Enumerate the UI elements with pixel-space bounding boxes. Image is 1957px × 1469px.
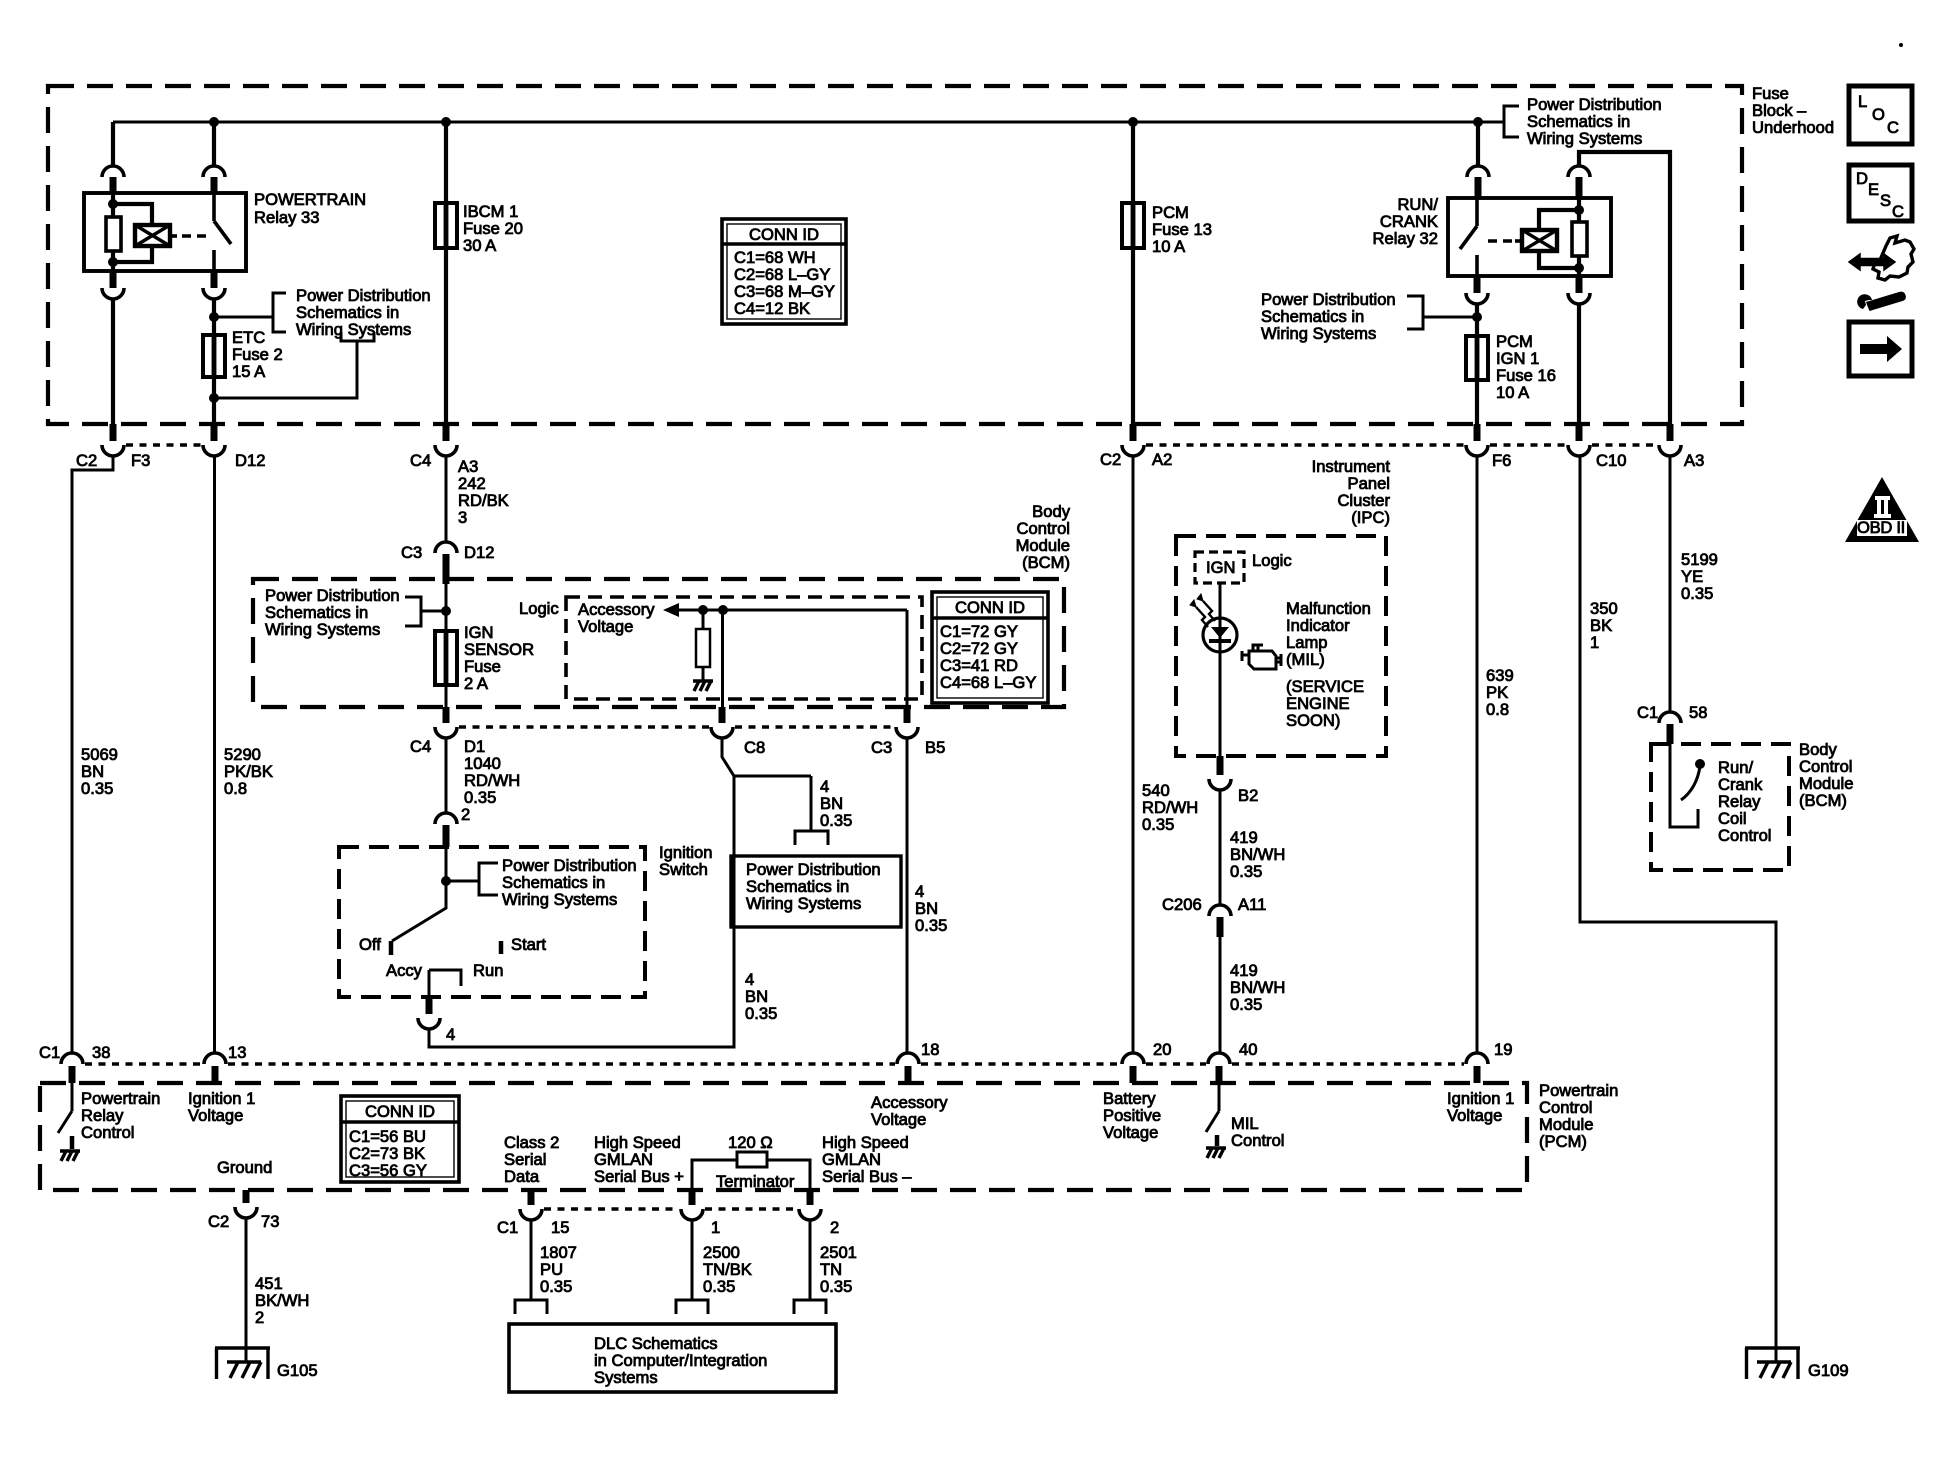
svg-text:C2: C2 [208, 1212, 229, 1231]
pin stub into run/crank BCM box [1667, 724, 1674, 744]
label Accessory Voltage (BCM logic) [578, 600, 655, 636]
label wire 350 BK 1 [1590, 599, 1618, 652]
dashed mechanical link relay 32 [1488, 239, 1516, 243]
label wire 5069 BN 0.35 [81, 745, 118, 798]
label Power Distribution Schematics in Wiring Systems (ignition switch) [502, 856, 637, 909]
wire: resistor branch [702, 610, 705, 681]
pin stub C206 [1217, 917, 1224, 937]
node: junction to PDS bracket on ETC leg [209, 312, 219, 322]
label wire 2500 TN/BK 0.35 [703, 1243, 752, 1296]
connector arc 4 [418, 1018, 440, 1029]
wire from under-bracket to ETC leg [214, 341, 357, 398]
label wire 5290 PK/BK 0.8 [224, 745, 273, 798]
dotted connector line segments (PCM top row) [85, 1062, 202, 1066]
label MIL Control [1231, 1114, 1285, 1150]
label Ignition 1 Voltage (right) [1447, 1089, 1514, 1125]
svg-text:38: 38 [92, 1043, 110, 1062]
wire: accessory voltage line across logic box [678, 609, 907, 612]
svg-text:13: 13 [228, 1043, 246, 1062]
svg-text:0.35: 0.35 [1142, 815, 1174, 834]
label wire 5199 YE 0.35 [1681, 550, 1718, 603]
svg-text:Start: Start [511, 935, 546, 954]
svg-text:POWERTRAIN: POWERTRAIN [254, 190, 366, 209]
forward arrow icon box [1849, 322, 1912, 376]
connector arc D12 [203, 445, 225, 456]
wire 419 BN/WH 0.35 upper segment [1219, 790, 1222, 905]
resistor inside relay 33 [106, 217, 121, 251]
svg-text:A2: A2 [1152, 450, 1172, 469]
wire 242 RD/BK from C4/A3 to C3/D12 [445, 456, 448, 542]
pin labels C2 / 73 [208, 1212, 279, 1231]
svg-text:0.8: 0.8 [224, 779, 247, 798]
svg-text:2: 2 [830, 1218, 839, 1237]
pin stub C4/D1 [443, 707, 450, 723]
svg-text:C4: C4 [410, 737, 431, 756]
label wire 639 PK 0.8 [1486, 666, 1514, 719]
connector arc C1/58 [1659, 712, 1681, 723]
wire: relay 32 switched output down to F6 [1475, 304, 1479, 424]
connector arc C2/73 [235, 1207, 257, 1218]
reference bracket BCM ign sensor area [405, 597, 421, 626]
node: relay 33 coil loop bottom [108, 257, 118, 267]
Accy-Run bridge contact [429, 970, 461, 986]
connector arc 40 [1208, 1053, 1230, 1064]
fuse F2 ETC Fuse 2 15 A [203, 335, 225, 377]
svg-text:40: 40 [1239, 1040, 1257, 1059]
switch pivot dot [1695, 759, 1705, 769]
BCM dashed enclosure [253, 579, 1064, 707]
reference bracket ignition switch [479, 863, 498, 895]
svg-text:Serial Bus –: Serial Bus – [822, 1167, 912, 1186]
svg-text:C1: C1 [39, 1043, 60, 1062]
svg-text:C4: C4 [410, 451, 431, 470]
svg-text:E: E [1868, 180, 1879, 199]
svg-text:Voltage: Voltage [1447, 1106, 1502, 1125]
svg-text:IGN: IGN [1206, 558, 1236, 577]
svg-text:Accy: Accy [386, 961, 423, 980]
fuse F20 IBCM 1 Fuse 20 30 A [435, 203, 457, 248]
label wire D1 1040 RD/WH 0.35 [464, 754, 520, 807]
svg-text:Systems: Systems [594, 1368, 658, 1387]
wire: terminator left leg [692, 1160, 737, 1190]
label Ignition Switch [659, 843, 713, 879]
svg-text:Wiring Systems: Wiring Systems [746, 894, 861, 913]
svg-text:D: D [1856, 169, 1868, 188]
pin stub relay 33 right leg [211, 177, 218, 193]
resistor in BCM logic [696, 629, 710, 667]
svg-text:F6: F6 [1492, 451, 1511, 470]
wire inside ignition switch [445, 847, 448, 881]
wire: PCM fuse 13 leg from bus [1131, 122, 1135, 424]
connector arc C1/38 [61, 1053, 83, 1064]
connector arc 2 [799, 1209, 821, 1220]
svg-text:CONN ID: CONN ID [749, 225, 819, 244]
bracket above DLC box (C1/15) [515, 1300, 547, 1314]
svg-text:0.35: 0.35 [745, 1004, 777, 1023]
node: junction to BCM reference bracket [441, 606, 451, 616]
svg-text:Relay 32: Relay 32 [1373, 229, 1439, 248]
svg-text:C3: C3 [401, 543, 422, 562]
wire: relay 33 coil loop [113, 204, 152, 262]
ground G105 [215, 1348, 270, 1379]
ignition switch dashed enclosure [339, 847, 645, 997]
label IGN SENSOR Fuse 2 A [464, 623, 534, 693]
connector arc relay 33 right leg [203, 166, 225, 177]
svg-text:Wiring Systems: Wiring Systems [265, 620, 380, 639]
coil (crossed box) of relay 33 [135, 225, 177, 246]
driver contact [70, 1136, 75, 1149]
BCM logic dashed box [566, 597, 922, 699]
pin stub into ignition switch [443, 825, 450, 847]
svg-text:Logic: Logic [519, 599, 559, 618]
LOC icon box [1849, 86, 1912, 144]
label wire 419 BN/WH 0.35 (lower) [1230, 961, 1285, 1014]
MIL lamp LED circle [1203, 618, 1237, 652]
wire: relay 33 coil leg from bus [212, 122, 216, 166]
svg-text:C4=12 BK: C4=12 BK [734, 299, 810, 318]
svg-text:B2: B2 [1238, 786, 1258, 805]
pin labels DLC row [497, 1218, 839, 1237]
wire branch to boxed reference (accessory feed) [734, 776, 811, 831]
svg-text:CONN ID: CONN ID [365, 1102, 435, 1121]
connector arc C1/15 [520, 1209, 542, 1220]
connector arc 18 [897, 1053, 919, 1064]
IPC dashed enclosure [1176, 536, 1386, 756]
svg-text:A11: A11 [1238, 895, 1266, 914]
wire 639 PK 0.8 from F6 down to PCM 19 [1476, 456, 1479, 1053]
svg-text:Voltage: Voltage [871, 1110, 926, 1129]
connector arc 2 (ignition switch feed) [435, 813, 457, 824]
label PCM Fuse 13 10 A [1152, 203, 1212, 256]
wire 451 BK/WH 2 to G105 [245, 1218, 248, 1362]
powertrain relay control driver switch [58, 1083, 72, 1133]
wire: relay 32 right leg down to C10 [1577, 304, 1581, 424]
svg-text:C8: C8 [744, 738, 765, 757]
pin labels C1 / 58 [1637, 703, 1707, 722]
PCM dashed enclosure [40, 1083, 1527, 1190]
CONN ID table (BCM) [932, 592, 1048, 703]
label Powertrain Relay Control [81, 1089, 160, 1142]
svg-text:Wiring Systems: Wiring Systems [296, 320, 411, 339]
connector arc relay 32 right leg top [1568, 166, 1590, 177]
connector row at fuse block bottom : pin stubs [110, 424, 117, 441]
svg-text:G109: G109 [1808, 1361, 1849, 1380]
reference bracket to Power Distribution Schematics (top right) [1504, 106, 1519, 137]
wire 540 RD/WH 0.35 from C2/A2 down to PCM 20 [1132, 456, 1135, 1053]
connector arc 20 [1122, 1053, 1144, 1064]
connector arc relay 33 left leg [102, 166, 124, 177]
run/crank relay coil control dashed enclosure [1651, 744, 1789, 870]
svg-text:0.35: 0.35 [540, 1277, 572, 1296]
svg-text:30 A: 30 A [463, 236, 497, 255]
MIL control driver switch [1206, 1083, 1219, 1132]
connector arc relay 32 left leg top [1467, 166, 1489, 177]
svg-text:O: O [1872, 105, 1885, 124]
label (SERVICE ENGINE SOON) [1286, 677, 1364, 730]
label Ignition 1 Voltage (left) [188, 1089, 255, 1125]
svg-text:Run: Run [473, 961, 503, 980]
wire: accessory output leg inside switch [428, 970, 431, 997]
connector arc A3 [1659, 445, 1681, 456]
wire: terminator right leg [767, 1160, 810, 1190]
svg-text:73: 73 [261, 1212, 279, 1231]
svg-text:A3: A3 [1684, 451, 1704, 470]
svg-text:1: 1 [711, 1218, 720, 1237]
Start position contact [499, 941, 504, 954]
wire: relay 32 coil loop [1539, 210, 1579, 268]
label wire A3 242 RD/BK 3 [458, 457, 509, 527]
label Body Control Module (BCM) right side [1799, 740, 1853, 810]
pin labels C3 / D12 [401, 543, 494, 562]
svg-text:Voltage: Voltage [1103, 1123, 1158, 1142]
connector arc C8 [711, 727, 733, 738]
svg-text:Relay 33: Relay 33 [254, 208, 320, 227]
fuse F13 PCM Fuse 13 10 A [1122, 203, 1144, 248]
wire 5069 BN 0.35 from C2/F3 to PCM C1/38 [72, 456, 113, 1053]
wire 5290 PK/BK 0.8 from D12 to PCM 13 [213, 456, 216, 1053]
svg-text:Control: Control [81, 1123, 135, 1142]
wire: C8 branch down [721, 610, 724, 707]
svg-text:0.8: 0.8 [1486, 700, 1509, 719]
svg-text:Control: Control [1718, 826, 1772, 845]
connector pin labels top row [76, 450, 1704, 470]
pin stub relay 32 left leg top [1475, 177, 1482, 198]
wire: IBCM fuse leg from bus [444, 122, 448, 424]
connector arc C2/A2 [1122, 445, 1144, 456]
node: bus junction at run/crank relay leg [1473, 117, 1483, 127]
pin labels BCM row [410, 737, 945, 757]
arrow into Accessory Voltage [663, 603, 679, 617]
MIL lamp cathode bar [1209, 639, 1231, 643]
pin stub relay 32 bottom right [1576, 276, 1583, 293]
pin labels C206 / A11 [1162, 895, 1266, 914]
coil (crossed box) of relay 32 [1515, 230, 1557, 251]
wire 1807 PU 0.35 [530, 1220, 533, 1300]
node: junction at pull-up resistor [698, 605, 708, 615]
pin stub relay 32 bottom left [1474, 276, 1481, 293]
svg-text:L: L [1858, 92, 1867, 111]
svg-text:C1: C1 [1637, 703, 1658, 722]
fuse IGN SENSOR Fuse 2 A [435, 631, 457, 685]
boxed reference Power Distribution Schematics in Wiring Systems [731, 856, 901, 927]
svg-text:OBD II: OBD II [1857, 518, 1905, 537]
svg-text:C2: C2 [76, 451, 97, 470]
svg-text:0.35: 0.35 [1230, 995, 1262, 1014]
resistor inside relay 32 [1572, 222, 1587, 256]
connector arc C3/B5 [896, 727, 918, 738]
connector arc 13 [204, 1053, 226, 1064]
wire inside BCM to IGN SENSOR fuse [445, 584, 448, 707]
label Powertrain Control Module (PCM) [1539, 1081, 1618, 1151]
label wire 451 BK/WH 2 [255, 1274, 309, 1327]
wire: B5 branch down [906, 610, 909, 707]
pin stub ignition switch output [426, 997, 433, 1014]
node: junction at C8 branch [718, 605, 728, 615]
svg-text:1: 1 [1590, 633, 1599, 652]
Off position contact [389, 941, 394, 955]
label Power Distribution Schematics in Wiring Systems (ETC area) [296, 286, 431, 339]
svg-text:0.35: 0.35 [820, 811, 852, 830]
connector arc relay 33 bottom right [203, 288, 225, 299]
node: bus junction at IBCM fuse leg [441, 117, 451, 127]
pin stub relay 32 right leg top [1576, 177, 1583, 198]
node: junction to PDS bracket on IGN1 leg [1472, 312, 1482, 322]
label Accessory Voltage (PCM) [871, 1093, 948, 1129]
svg-text:C: C [1887, 118, 1899, 137]
svg-text:Wiring Systems: Wiring Systems [1527, 129, 1642, 148]
svg-text:18: 18 [921, 1040, 939, 1059]
dotted connector line segments (BCM row) [459, 725, 709, 729]
pin stub B2 [1217, 756, 1224, 775]
DLC schematics box [509, 1324, 836, 1392]
hand with double arrow and wrench icon [1849, 236, 1914, 311]
svg-text:CONN ID: CONN ID [955, 598, 1025, 617]
svg-text:Wiring Systems: Wiring Systems [1261, 324, 1376, 343]
connector arc relay 32 bottom left [1466, 293, 1488, 304]
node: junction to ignition switch reference bracket [441, 876, 451, 886]
pin stub into BCM at C3/D12 [443, 554, 450, 584]
wire to relay32-left reference bracket [1423, 316, 1477, 319]
wire: relay 32 right leg through resistor [1577, 198, 1581, 276]
svg-text:0.35: 0.35 [915, 916, 947, 935]
switch contact relay 32 [1460, 198, 1477, 276]
node: bus junction at PCM fuse leg [1128, 117, 1138, 127]
label ETC Fuse 2 15 A [232, 328, 283, 381]
svg-text:Control: Control [1231, 1131, 1285, 1150]
svg-text:19: 19 [1494, 1040, 1512, 1059]
svg-text:G105: G105 [277, 1361, 318, 1380]
dotted connector line segments (top row) [126, 443, 201, 447]
connector arc 19 [1466, 1053, 1488, 1064]
switch wiper arm to Off position [392, 881, 446, 941]
svg-text:(BCM): (BCM) [1799, 791, 1847, 810]
connector arc relay 32 bottom right [1568, 293, 1590, 304]
wire: relay 32 coil feed up and over to A3 leg [1579, 152, 1670, 424]
svg-text:D12: D12 [464, 543, 494, 562]
label RUN/ CRANK Relay 32 [1373, 195, 1439, 248]
wire to BCM reference bracket [421, 610, 446, 613]
pin stub relay 33 bottom left [110, 271, 117, 288]
svg-text:SOON): SOON) [1286, 711, 1340, 730]
connector arc relay 33 bottom left [102, 288, 124, 299]
wire 4 BN 0.35 from B5 down to PCM 18 [906, 738, 909, 1053]
svg-text:Logic: Logic [1252, 551, 1292, 570]
CONN ID table (fuse block) [722, 219, 846, 324]
label Malfunction Indicator Lamp (MIL) [1286, 599, 1371, 669]
MIL lamp diode triangle [1211, 627, 1229, 638]
wire: main battery bus inside fuse block [113, 121, 1504, 124]
pin stubs DLC row [528, 1190, 535, 1205]
svg-text:C4=68 L–GY: C4=68 L–GY [940, 673, 1036, 692]
DESC icon box [1849, 165, 1912, 221]
switch blade run/crank control [1681, 766, 1700, 800]
fuse F16 PCM IGN 1 Fuse 16 10 A [1466, 336, 1488, 380]
node: junction below ETC fuse [209, 393, 219, 403]
wire: relay 33 switched leg from bus [111, 122, 115, 166]
connector arc 1 [681, 1209, 703, 1220]
node: relay 32 coil loop bottom [1574, 263, 1584, 273]
pin stub C2/73 ground [243, 1190, 250, 1203]
relay K32 RUN/CRANK Relay 32 body [1448, 198, 1611, 276]
connector arc B2 [1209, 779, 1231, 790]
label wire 1807 PU 0.35 [540, 1243, 577, 1296]
svg-text:C3: C3 [871, 738, 892, 757]
svg-text:Ground: Ground [217, 1158, 272, 1177]
svg-text:3: 3 [458, 508, 467, 527]
svg-text:2 A: 2 A [464, 674, 489, 693]
wire: relay 33 switched output down to C2/F3 [111, 299, 115, 424]
svg-text:C10: C10 [1596, 451, 1626, 470]
label wire 4 BN 0.35 (vertical run) [745, 970, 777, 1023]
label wire 2501 TN 0.35 [820, 1243, 857, 1296]
stray dot top right [1899, 43, 1903, 47]
svg-text:58: 58 [1689, 703, 1707, 722]
svg-text:20: 20 [1153, 1040, 1171, 1059]
dotted connector line segments (DLC row) [544, 1207, 679, 1211]
wire 350 BK 1 from C10 to G109 [1580, 456, 1776, 1362]
bracket above DLC box (1) [676, 1300, 708, 1314]
wire: relay 33 coil output down to D12 [212, 299, 216, 424]
svg-text:F3: F3 [131, 451, 150, 470]
svg-text:0.35: 0.35 [1230, 862, 1262, 881]
fuse block underhood dashed enclosure [48, 86, 1742, 424]
connector arc C10 [1568, 445, 1590, 456]
svg-text:Wiring Systems: Wiring Systems [502, 890, 617, 909]
svg-text:2: 2 [255, 1308, 264, 1327]
IGN dashed box [1195, 552, 1244, 583]
wire from IGN logic to MIL lamp [1219, 583, 1222, 756]
pin stub relay 33 left leg [110, 177, 117, 193]
svg-text:C2: C2 [1100, 450, 1121, 469]
svg-text:Serial Bus +: Serial Bus + [594, 1167, 684, 1186]
svg-text:0.35: 0.35 [1681, 584, 1713, 603]
bracket above DLC box (2) [794, 1300, 826, 1314]
svg-text:Terminator: Terminator [716, 1172, 795, 1191]
label High Speed GMLAN Serial Bus - [822, 1133, 912, 1186]
label Power Distribution Schematics in Wiring Systems (relay 32 area) [1261, 290, 1396, 343]
ground symbol (powertrain relay control) [60, 1151, 80, 1161]
wire inside run/crank control [1670, 744, 1698, 827]
wire 419 BN/WH 0.35 lower segment [1219, 937, 1222, 1053]
wire 2500 TN/BK 0.35 [691, 1220, 694, 1300]
svg-text:C: C [1892, 202, 1904, 221]
OBD II triangle icon [1845, 477, 1919, 542]
dashed mechanical link relay 33 [182, 234, 210, 238]
connector arc C4/A3 [435, 445, 457, 456]
reference bracket ETC area [273, 293, 286, 332]
label High Speed GMLAN Serial Bus + [594, 1133, 684, 1186]
wire to ETC reference bracket [214, 316, 273, 319]
label Run/ Crank Relay Coil Control [1718, 758, 1772, 845]
connector arc C206/A11 [1209, 905, 1231, 916]
pin stub C8 [719, 707, 726, 723]
svg-text:Underhood: Underhood [1752, 118, 1834, 137]
CONN ID table (PCM) [341, 1096, 459, 1182]
svg-text:2: 2 [461, 805, 470, 824]
svg-text:Off: Off [359, 935, 381, 954]
svg-text:D12: D12 [235, 451, 265, 470]
label IBCM 1 Fuse 20 30 A [463, 202, 523, 255]
pin stub relay 33 bottom right [211, 271, 218, 288]
svg-text:Voltage: Voltage [188, 1106, 243, 1125]
svg-text:(IPC): (IPC) [1351, 508, 1390, 527]
wire: run/crank relay 32 left leg from bus [1476, 122, 1480, 166]
svg-text:C3=56 GY: C3=56 GY [349, 1161, 427, 1180]
MIL lamp illumination arrows [1196, 601, 1215, 627]
ground symbol (MIL control) [1206, 1148, 1226, 1158]
svg-text:B5: B5 [925, 738, 945, 757]
svg-text:15 A: 15 A [232, 362, 266, 381]
